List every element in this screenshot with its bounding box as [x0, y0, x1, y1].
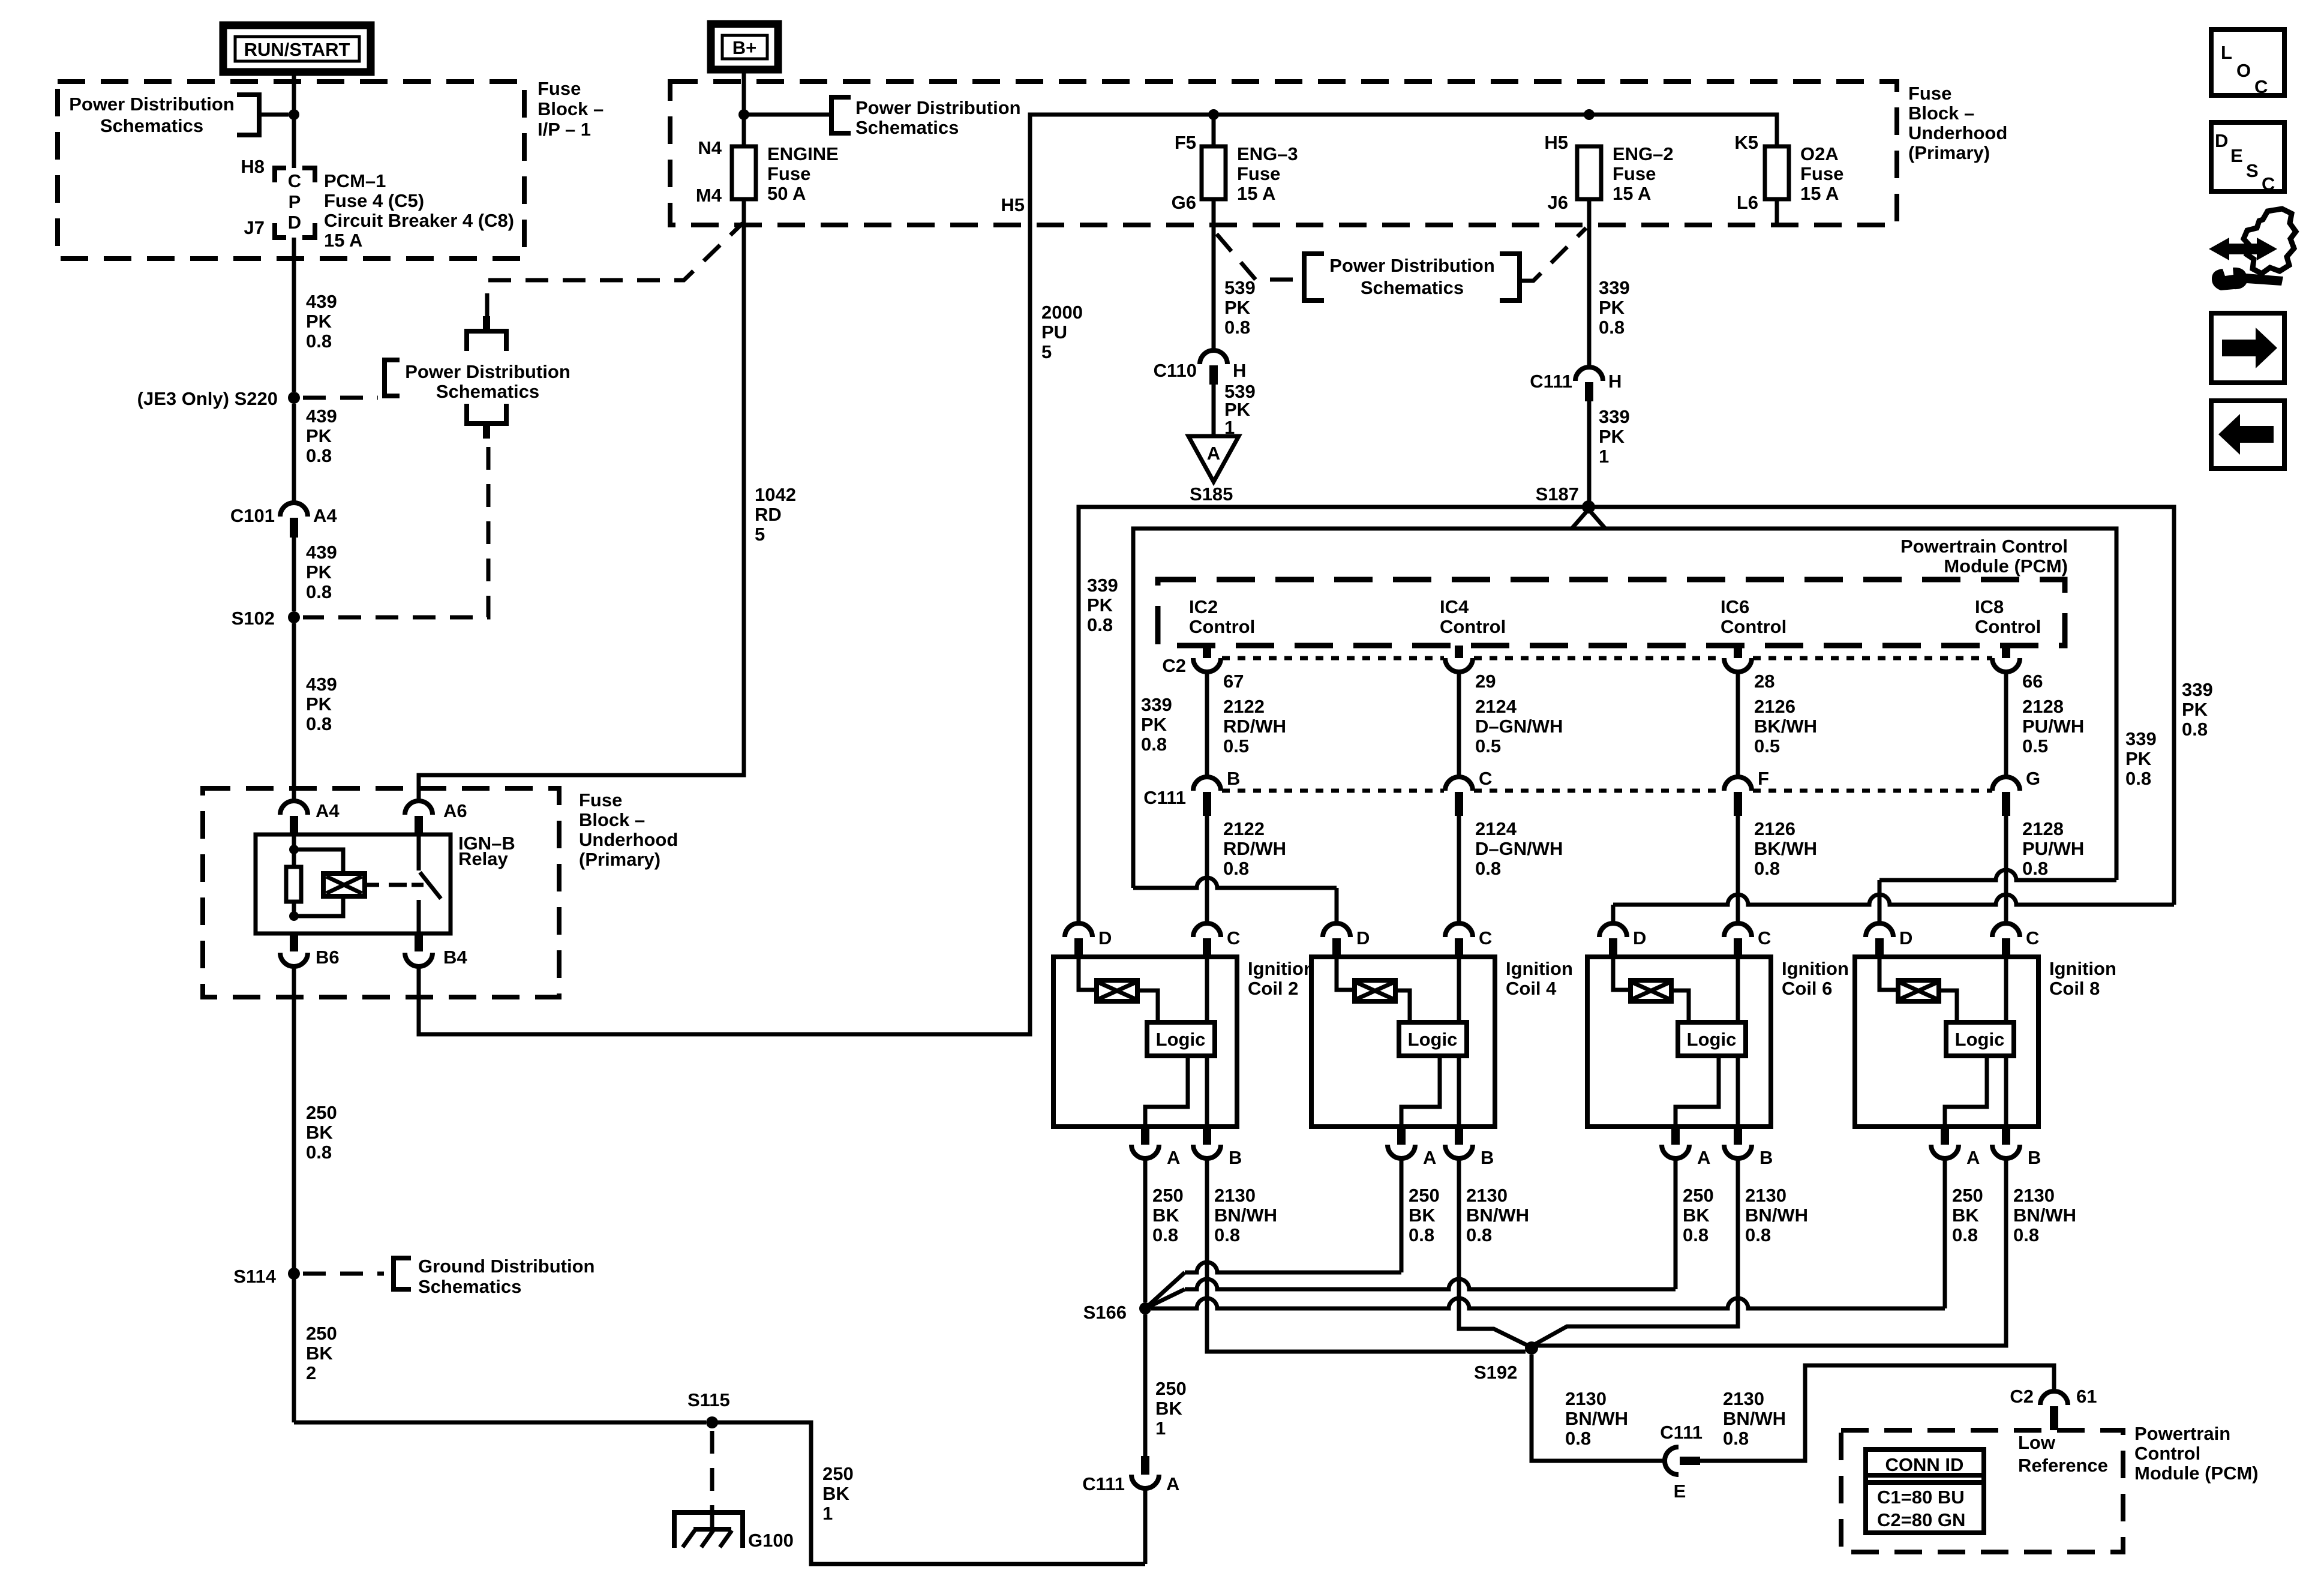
wire 2126 0.5 from pin 28 to C111 F	[1736, 672, 1740, 777]
svg-text:B6: B6	[316, 947, 340, 968]
connector ignition coil 2 pin C	[1193, 923, 1221, 937]
svg-text:PK: PK	[2125, 748, 2152, 769]
svg-text:B: B	[1227, 768, 1240, 789]
connector C110 H	[1200, 350, 1227, 364]
ignition coil 4 box	[1311, 957, 1495, 1127]
svg-text:BK: BK	[822, 1483, 849, 1504]
svg-text:Fuse: Fuse	[767, 163, 810, 184]
node junction at power distribution tap	[289, 109, 299, 120]
svg-text:J6: J6	[1548, 192, 1568, 213]
connector ignition coil 2 pin B	[1203, 1127, 1211, 1145]
wire B+ down to ENGINE fuse	[742, 70, 746, 146]
svg-text:IC6: IC6	[1721, 596, 1749, 617]
svg-text:1: 1	[1155, 1418, 1166, 1439]
svg-text:15 A: 15 A	[1237, 183, 1275, 204]
svg-text:Logic: Logic	[1408, 1029, 1458, 1050]
svg-text:Fuse: Fuse	[1613, 163, 1656, 184]
node bus junction F5	[1208, 109, 1219, 120]
wire O2A fuse to box edge	[1775, 199, 1779, 225]
svg-text:B: B	[2028, 1147, 2041, 1168]
wire 339 PK bus from S187 left and right (outer loop)	[1079, 507, 2174, 923]
svg-text:S187: S187	[1536, 484, 1579, 505]
svg-text:Coil 8: Coil 8	[2049, 978, 2100, 999]
svg-text:Control: Control	[1189, 616, 1255, 637]
svg-text:2126: 2126	[1754, 696, 1795, 717]
svg-text:CONN ID: CONN ID	[1885, 1454, 1964, 1475]
connector ignition coil 8 pin C	[1992, 923, 2020, 937]
wire C111 H to S187	[1587, 401, 1592, 507]
svg-text:0.8: 0.8	[1723, 1428, 1749, 1449]
connector C111 G	[1992, 777, 2020, 791]
svg-text:0.8: 0.8	[1087, 614, 1113, 635]
svg-text:G: G	[2026, 768, 2040, 789]
wire S102 to relay A4	[292, 623, 296, 801]
svg-text:C110: C110	[1154, 360, 1197, 381]
svg-text:Powertrain Control: Powertrain Control	[1900, 536, 2068, 557]
svg-text:E: E	[2230, 145, 2243, 166]
svg-text:ENGINE: ENGINE	[767, 143, 839, 164]
svg-text:D: D	[1356, 927, 1370, 948]
svg-text:339: 339	[1087, 575, 1118, 596]
wire 2128 0.5 from pin 66 to C111 G	[2004, 672, 2008, 777]
connector C111 H	[1575, 367, 1603, 381]
relay coil resistor	[286, 867, 301, 902]
svg-text:539: 539	[1224, 277, 1256, 298]
svg-text:Powertrain: Powertrain	[2134, 1423, 2230, 1444]
svg-text:C101: C101	[230, 505, 275, 526]
svg-text:339: 339	[1599, 406, 1630, 427]
svg-text:0.8: 0.8	[1409, 1224, 1434, 1245]
svg-text:ENG–2: ENG–2	[1613, 143, 1674, 164]
svg-text:IC4: IC4	[1440, 596, 1469, 617]
svg-text:15 A: 15 A	[1613, 183, 1651, 204]
svg-text:250: 250	[1152, 1185, 1184, 1206]
svg-text:0.8: 0.8	[1952, 1224, 1978, 1245]
reference line to Power Distribution Schematics (top left)	[259, 113, 289, 117]
connector C2 pin 61	[2040, 1391, 2068, 1405]
svg-text:0.8: 0.8	[1152, 1224, 1178, 1245]
svg-text:BK/WH: BK/WH	[1754, 716, 1817, 737]
svg-text:C111: C111	[1082, 1473, 1125, 1494]
svg-text:IC2: IC2	[1189, 596, 1218, 617]
svg-text:P: P	[289, 191, 301, 212]
svg-text:2130: 2130	[1466, 1185, 1508, 1206]
svg-text:2128: 2128	[2022, 696, 2064, 717]
svg-text:(Primary): (Primary)	[1908, 142, 1990, 163]
svg-text:BN/WH: BN/WH	[1723, 1408, 1786, 1429]
svg-text:PCM–1: PCM–1	[324, 170, 386, 191]
connector ignition coil 2 pin A	[1141, 1127, 1149, 1145]
svg-text:PK: PK	[306, 425, 332, 446]
reference dashed wire S220 to Power Distribution Schematics	[303, 396, 378, 400]
svg-text:BK: BK	[1952, 1205, 1979, 1226]
svg-text:Fuse 4 (C5): Fuse 4 (C5)	[324, 190, 424, 211]
wire inner loop to ignition coil 8 D	[1879, 870, 2116, 880]
icon DESC box	[2211, 122, 2284, 191]
svg-text:O: O	[2236, 60, 2251, 81]
svg-text:RD/WH: RD/WH	[1223, 838, 1286, 859]
svg-text:15 A: 15 A	[1800, 183, 1839, 204]
svg-text:Schematics: Schematics	[100, 115, 203, 136]
reference dashed wire PDS text down to S102	[303, 447, 488, 617]
connector ignition coil 4 pin A	[1397, 1127, 1406, 1145]
svg-text:A: A	[1167, 1147, 1180, 1168]
svg-text:BK: BK	[306, 1122, 333, 1143]
bracket right of top-left PDS text	[237, 95, 259, 135]
svg-text:A4: A4	[316, 800, 340, 821]
svg-text:BK: BK	[1409, 1205, 1436, 1226]
svg-text:BN/WH: BN/WH	[2013, 1205, 2076, 1226]
svg-text:0.8: 0.8	[1475, 858, 1501, 879]
dotted connector line C111 row	[1222, 789, 1444, 793]
svg-text:Control: Control	[1975, 616, 2041, 637]
reference line to Power Distribution Schematics (B+)	[744, 113, 830, 117]
svg-text:Underhood: Underhood	[1908, 122, 2007, 143]
svg-text:5: 5	[1041, 341, 1052, 362]
wire coil 8 B to S192	[1532, 1158, 2006, 1346]
wire 1042 RD from ENGINE fuse M4 to relay A6	[419, 199, 744, 801]
node S220	[288, 392, 300, 404]
svg-text:2000: 2000	[1041, 302, 1083, 323]
svg-text:0.5: 0.5	[1754, 736, 1780, 757]
svg-text:28: 28	[1754, 671, 1774, 692]
svg-text:B: B	[1481, 1147, 1494, 1168]
svg-text:0.8: 0.8	[1683, 1224, 1709, 1245]
wire coil 2 A to S166	[1143, 1158, 1148, 1302]
svg-text:0.8: 0.8	[2182, 719, 2208, 740]
svg-text:BK: BK	[1152, 1205, 1179, 1226]
connector ignition coil 6 pin D	[1599, 923, 1627, 937]
svg-text:O2A: O2A	[1800, 143, 1839, 164]
wire 2126 0.8 from C111 F to ignition coil	[1736, 816, 1740, 923]
svg-text:2126: 2126	[1754, 818, 1795, 839]
svg-text:Module (PCM): Module (PCM)	[2134, 1463, 2259, 1484]
svg-text:2124: 2124	[1475, 818, 1517, 839]
connector ignition coil 2 pin D	[1065, 923, 1092, 937]
svg-text:C: C	[1479, 927, 1492, 948]
svg-text:PK: PK	[2182, 699, 2208, 720]
bracket left of GDS text	[394, 1258, 411, 1289]
svg-text:C: C	[1479, 768, 1492, 789]
svg-text:0.5: 0.5	[2022, 736, 2048, 757]
svg-text:Coil 4: Coil 4	[1506, 978, 1557, 999]
reference dashed wire S115 to G100	[710, 1431, 714, 1510]
svg-text:250: 250	[1155, 1378, 1187, 1399]
svg-text:D: D	[1899, 927, 1912, 948]
svg-text:67: 67	[1223, 671, 1244, 692]
svg-text:D–GN/WH: D–GN/WH	[1475, 838, 1563, 859]
svg-text:S102: S102	[232, 608, 275, 629]
wire RUN/START to CPD fuse	[292, 72, 296, 168]
svg-text:G100: G100	[748, 1530, 794, 1551]
node S187	[1582, 500, 1595, 514]
wire coil 8 A ground to S166	[1151, 1298, 1945, 1308]
svg-text:BN/WH: BN/WH	[1745, 1205, 1808, 1226]
svg-text:250: 250	[1683, 1185, 1714, 1206]
ignition coil 6 logic module	[1736, 957, 1740, 1022]
svg-text:250: 250	[306, 1323, 337, 1344]
svg-text:Block –: Block –	[579, 809, 645, 830]
ignition coil 8 box	[1855, 957, 2038, 1127]
svg-text:S185: S185	[1190, 484, 1233, 505]
wire 2122 0.8 from C111 B to ignition coil	[1205, 816, 1209, 923]
svg-text:Block –: Block –	[538, 98, 603, 119]
svg-text:Ground Distribution: Ground Distribution	[418, 1256, 594, 1277]
svg-text:D: D	[288, 212, 301, 233]
svg-text:0.8: 0.8	[2022, 858, 2048, 879]
svg-text:B+: B+	[732, 37, 757, 58]
svg-text:Module (PCM): Module (PCM)	[1944, 556, 2068, 577]
svg-text:0.8: 0.8	[1466, 1224, 1492, 1245]
svg-text:I/P – 1: I/P – 1	[538, 119, 591, 140]
svg-text:A6: A6	[443, 800, 467, 821]
relay IGN-B box	[256, 834, 451, 933]
relay coil circuit	[292, 835, 296, 867]
svg-text:50 A: 50 A	[767, 183, 806, 204]
wire S192 down to C111 E	[1532, 1355, 1665, 1461]
svg-text:15 A: 15 A	[324, 230, 362, 251]
svg-text:0.8: 0.8	[1214, 1224, 1240, 1245]
svg-text:Power Distribution: Power Distribution	[69, 94, 235, 115]
svg-text:BK/WH: BK/WH	[1754, 838, 1817, 859]
ignition coil 2 logic module	[1205, 957, 1209, 1022]
svg-text:339: 339	[2182, 679, 2213, 700]
svg-text:0.8: 0.8	[1223, 858, 1249, 879]
wire 2124 0.5 from pin 29 to C111 C	[1457, 672, 1461, 777]
svg-text:C1=80 BU: C1=80 BU	[1877, 1487, 1965, 1508]
reference dashed wire G6 to PDS (mid)	[1217, 234, 1303, 280]
icon LOC box	[2211, 29, 2284, 95]
svg-text:BK: BK	[1155, 1398, 1182, 1419]
wire coil 4 A ground to S166	[1145, 1272, 1185, 1308]
wire 2128 0.8 from C111 G to ignition coil	[2004, 816, 2008, 923]
svg-text:ENG–3: ENG–3	[1237, 143, 1298, 164]
wire C110 to S185	[1212, 385, 1216, 436]
svg-text:A: A	[1423, 1147, 1436, 1168]
svg-text:339: 339	[1141, 694, 1172, 715]
svg-text:2130: 2130	[1745, 1185, 1786, 1206]
wire outer loop to ignition coil 6 D	[1613, 894, 2174, 905]
connector C111 B	[1193, 777, 1221, 791]
svg-text:0.8: 0.8	[2013, 1224, 2039, 1245]
svg-text:G6: G6	[1172, 192, 1196, 213]
wire J6 down to C111 H	[1587, 199, 1592, 367]
wire coil 2 B to S192	[1207, 1158, 1526, 1352]
reference dashed wire from B+ fuse area to PDS text	[487, 223, 743, 316]
svg-text:C: C	[2026, 927, 2039, 948]
wire C111 A down to ground run	[1143, 1488, 1148, 1564]
node S192	[1525, 1341, 1538, 1355]
svg-text:0.8: 0.8	[1224, 317, 1250, 338]
connector ignition coil 8 pin A	[1941, 1127, 1949, 1145]
svg-text:H: H	[1233, 360, 1246, 381]
svg-text:1: 1	[822, 1503, 833, 1524]
PCM dashed box (bottom right)	[1841, 1430, 2123, 1552]
svg-text:2130: 2130	[1565, 1388, 1607, 1409]
svg-text:A: A	[1697, 1147, 1710, 1168]
wire S220 to C101	[292, 404, 296, 503]
svg-text:Fuse: Fuse	[538, 78, 581, 99]
connector relay B4	[415, 933, 423, 951]
svg-text:RD: RD	[755, 504, 782, 525]
wire S166 down to C111 A	[1143, 1314, 1148, 1456]
svg-text:C111: C111	[1530, 371, 1572, 392]
svg-text:H: H	[1608, 371, 1622, 392]
svg-text:0.8: 0.8	[306, 1142, 332, 1163]
svg-text:Coil 2: Coil 2	[1248, 978, 1298, 999]
svg-text:Schematics: Schematics	[436, 381, 539, 402]
svg-text:Fuse: Fuse	[1237, 163, 1280, 184]
bracket left of mid PDS text	[1304, 254, 1324, 301]
wire relay B6 down 250 BK	[292, 966, 296, 1422]
svg-text:2130: 2130	[1723, 1388, 1764, 1409]
svg-text:0.8: 0.8	[306, 331, 332, 352]
wire 2124 0.8 from C111 C to ignition coil	[1457, 816, 1461, 923]
connector C2 pin 67	[1203, 646, 1211, 658]
svg-text:(JE3 Only) S220: (JE3 Only) S220	[137, 388, 278, 409]
bracket below mid-left PDS text	[467, 404, 506, 424]
ignition coil 6 box	[1587, 957, 1771, 1127]
svg-text:0.8: 0.8	[1565, 1428, 1591, 1449]
svg-text:C: C	[288, 170, 301, 191]
svg-text:339: 339	[1599, 277, 1630, 298]
svg-text:Coil 6: Coil 6	[1782, 978, 1832, 999]
ignition coil 8 primary winding	[1879, 957, 1898, 990]
svg-text:0.8: 0.8	[1745, 1224, 1771, 1245]
svg-text:S: S	[2246, 160, 2259, 181]
svg-text:0.8: 0.8	[306, 445, 332, 466]
svg-text:PK: PK	[1224, 297, 1251, 318]
node S114	[288, 1268, 300, 1280]
svg-text:439: 439	[306, 406, 337, 427]
svg-text:C2: C2	[2010, 1386, 2034, 1407]
svg-text:Low: Low	[2018, 1432, 2056, 1453]
connector C111 A	[1141, 1456, 1149, 1475]
svg-text:D: D	[2215, 130, 2228, 151]
svg-text:PU/WH: PU/WH	[2022, 716, 2084, 737]
connector C101 A4	[280, 503, 308, 517]
svg-text:H5: H5	[1544, 132, 1568, 153]
svg-text:PU/WH: PU/WH	[2022, 838, 2084, 859]
svg-text:2124: 2124	[1475, 696, 1517, 717]
svg-text:0.8: 0.8	[1599, 317, 1625, 338]
svg-text:S115: S115	[687, 1389, 730, 1410]
svg-text:B4: B4	[443, 947, 467, 968]
connector ignition coil 6 pin A	[1671, 1127, 1680, 1145]
fuse ENG-2 15A	[1587, 146, 1592, 199]
svg-text:250: 250	[1409, 1185, 1440, 1206]
svg-text:439: 439	[306, 674, 337, 695]
icon forward arrow box	[2211, 313, 2284, 383]
svg-text:A: A	[1207, 443, 1220, 464]
connector C2 pin 66	[2002, 646, 2010, 658]
relay linkage dashes	[365, 883, 379, 887]
svg-text:L: L	[2221, 42, 2232, 63]
svg-text:D: D	[1633, 927, 1646, 948]
svg-text:0.8: 0.8	[2125, 768, 2151, 789]
svg-text:Ignition: Ignition	[2049, 958, 2116, 979]
circuit breaker CPD PCM-1 Fuse 4	[275, 168, 286, 182]
wire bus to ENG-3 fuse	[1212, 115, 1216, 146]
ignition coil 2 primary winding	[1079, 957, 1097, 990]
node S115	[706, 1416, 718, 1428]
svg-text:0.8: 0.8	[1754, 858, 1780, 879]
wire S114 to S115	[294, 1421, 706, 1425]
svg-text:L6: L6	[1737, 192, 1758, 213]
svg-text:2122: 2122	[1223, 696, 1265, 717]
svg-text:61: 61	[2076, 1386, 2097, 1407]
wire C111 E to PCM pin 61	[1700, 1365, 2054, 1461]
svg-text:RUN/START: RUN/START	[244, 39, 350, 60]
svg-text:BK: BK	[1683, 1205, 1710, 1226]
svg-text:Logic: Logic	[1955, 1029, 2005, 1050]
svg-text:C2=80 GN: C2=80 GN	[1877, 1509, 1965, 1530]
svg-text:C: C	[1227, 927, 1240, 948]
svg-text:E: E	[1674, 1481, 1686, 1502]
connector C111 F	[1724, 777, 1752, 791]
ignition coil 4 logic module	[1457, 957, 1461, 1022]
svg-text:2130: 2130	[2013, 1185, 2055, 1206]
connector relay A6	[405, 801, 433, 815]
bracket left of mid-left PDS text	[385, 360, 400, 396]
svg-text:Fuse: Fuse	[579, 789, 622, 810]
fuse block underhood primary dashed box (top)	[670, 82, 1897, 225]
svg-text:1: 1	[1599, 446, 1609, 467]
svg-text:Control: Control	[2134, 1443, 2200, 1464]
svg-text:0.5: 0.5	[1475, 736, 1501, 757]
svg-text:0.8: 0.8	[306, 713, 332, 734]
CONN ID table	[1866, 1449, 1984, 1533]
svg-text:B: B	[1229, 1147, 1242, 1168]
svg-text:0.5: 0.5	[1223, 736, 1249, 757]
svg-text:PK: PK	[306, 694, 332, 715]
ignition coil 8 logic module	[2004, 957, 2008, 1022]
svg-text:Fuse: Fuse	[1800, 163, 1843, 184]
svg-text:66: 66	[2022, 671, 2043, 692]
svg-text:BN/WH: BN/WH	[1214, 1205, 1277, 1226]
wire 2122 0.5 from pin 67 to C111 B	[1205, 672, 1209, 777]
svg-text:C2: C2	[1162, 655, 1186, 676]
svg-text:PK: PK	[1087, 595, 1113, 616]
wire coil 6 B to S192	[1535, 1158, 1738, 1344]
svg-text:BN/WH: BN/WH	[1565, 1408, 1628, 1429]
connector ignition coil 6 pin C	[1724, 923, 1752, 937]
svg-text:250: 250	[306, 1102, 337, 1123]
ignition coil 2 box	[1053, 957, 1237, 1127]
svg-text:S192: S192	[1474, 1362, 1517, 1383]
wire inner 339 PK loop from S187	[1572, 509, 1605, 529]
node S166	[1139, 1302, 1151, 1314]
fuse ENG-3 15A	[1212, 146, 1216, 199]
fuse O2A 15A	[1775, 146, 1779, 199]
svg-text:PU: PU	[1041, 322, 1067, 343]
bracket above mid-left PDS text	[467, 331, 506, 351]
svg-text:RD/WH: RD/WH	[1223, 716, 1286, 737]
svg-text:Schematics: Schematics	[855, 117, 959, 138]
svg-text:F: F	[1758, 768, 1769, 789]
svg-text:PK: PK	[306, 562, 332, 583]
svg-text:D–GN/WH: D–GN/WH	[1475, 716, 1563, 737]
connector ignition coil 4 pin D	[1323, 923, 1350, 937]
svg-text:C: C	[1758, 927, 1771, 948]
connector relay A4	[280, 801, 308, 815]
svg-text:Schematics: Schematics	[418, 1276, 521, 1297]
svg-text:Circuit Breaker 4 (C8): Circuit Breaker 4 (C8)	[324, 210, 514, 231]
wire CPD to S220 439 PK	[292, 238, 296, 392]
wire inner loop to ignition coil 4 D	[1133, 878, 1337, 888]
ignition coil 4 primary winding	[1337, 957, 1355, 990]
svg-text:A: A	[1966, 1147, 1980, 1168]
